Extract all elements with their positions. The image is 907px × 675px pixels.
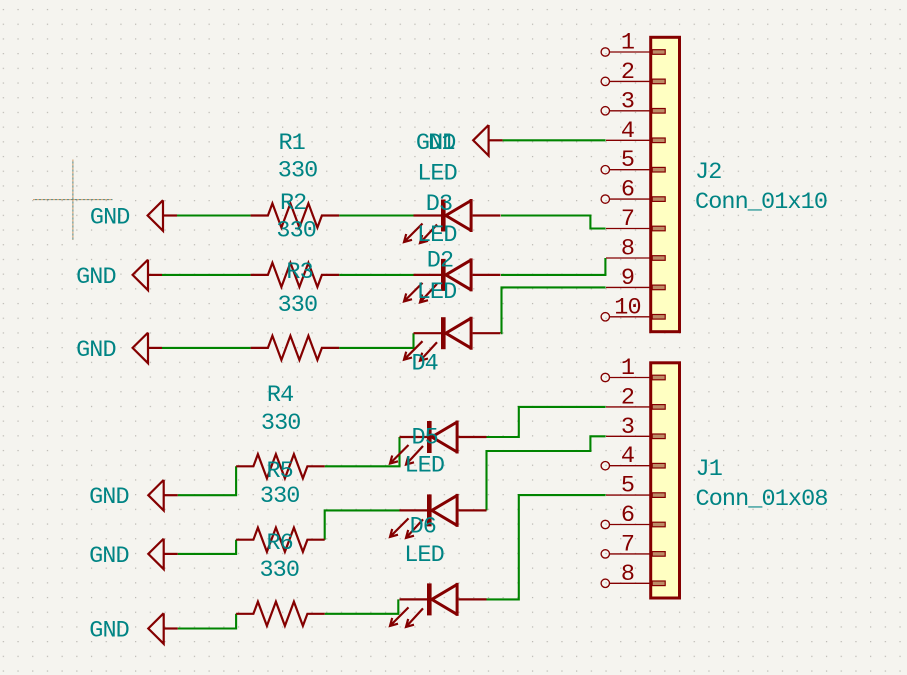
J1 pin 3 (606, 414, 665, 441)
wire R7 to D7 (325, 599, 399, 613)
ground GND_D (133, 333, 162, 364)
svg-text:2: 2 (621, 384, 634, 411)
J2 pin 6 (601, 177, 665, 204)
resistor R6 (236, 528, 325, 552)
svg-text:D1: D1 (428, 130, 454, 157)
svg-text:D5: D5 (411, 424, 437, 451)
svg-text:R5: R5 (266, 458, 292, 485)
J2 pin 5 (601, 147, 665, 174)
wire GND_B to R2 (177, 214, 251, 216)
wire GND_A to J2 pin 4 (503, 139, 606, 141)
wire GND_C to R3 (162, 274, 251, 276)
svg-text:D3: D3 (426, 191, 452, 218)
wire D3 to J2 pin 7 (501, 216, 606, 229)
wire GND3 to R5 (178, 466, 236, 495)
wire R5 to D5 (325, 437, 400, 466)
svg-text:J2: J2 (695, 159, 721, 186)
J1 pin 1 (601, 355, 665, 382)
J2 pin 2 (601, 59, 665, 86)
wire GND5 to R7 (178, 614, 236, 629)
wire R2 to D3 (339, 214, 413, 216)
svg-text:D2: D2 (427, 248, 453, 275)
LED D4 (404, 317, 501, 361)
wire GND4 to R6 (178, 540, 236, 554)
svg-text:330: 330 (278, 157, 318, 184)
ground GND5 (148, 613, 177, 644)
svg-text:J1: J1 (696, 456, 722, 483)
wire GND_D to R4 (162, 347, 251, 349)
svg-text:LED: LED (417, 222, 457, 249)
resistor R3 (251, 263, 340, 287)
svg-text:GND: GND (89, 484, 129, 511)
svg-text:LED: LED (417, 279, 457, 306)
svg-text:10: 10 (614, 294, 640, 321)
svg-text:4: 4 (621, 118, 634, 145)
svg-text:9: 9 (621, 265, 634, 292)
svg-text:5: 5 (621, 147, 634, 174)
svg-text:D6: D6 (410, 513, 436, 540)
svg-text:1: 1 (621, 355, 634, 382)
svg-text:LED: LED (404, 542, 444, 569)
svg-text:R4: R4 (267, 382, 293, 409)
svg-text:GND: GND (76, 264, 116, 291)
J2 pin 3 (601, 88, 665, 115)
svg-text:R6: R6 (266, 530, 292, 557)
J2 pin 1 (601, 30, 665, 57)
ground GND3 (148, 480, 177, 511)
resistor R2 (251, 203, 340, 227)
resistor R5 (236, 454, 325, 478)
wire R6 to D6 (325, 510, 400, 539)
svg-text:330: 330 (261, 410, 301, 437)
J1 pin 5 (606, 473, 665, 500)
svg-text:GND: GND (89, 543, 129, 570)
J2 pin 9 (606, 265, 665, 292)
J2 pin 4 (606, 118, 665, 145)
J2 pin 7 (606, 206, 665, 233)
svg-text:330: 330 (278, 292, 318, 319)
svg-text:330: 330 (259, 557, 299, 584)
svg-text:8: 8 (621, 561, 634, 588)
J1 pin 4 (601, 443, 665, 470)
svg-text:6: 6 (621, 502, 634, 529)
svg-text:Conn_01x08: Conn_01x08 (696, 486, 828, 513)
svg-text:330: 330 (260, 483, 300, 510)
svg-text:2: 2 (621, 59, 634, 86)
svg-text:330: 330 (276, 218, 316, 245)
svg-text:LED: LED (417, 161, 457, 188)
ground GND_A (power symbol, row A) (473, 125, 502, 156)
svg-text:6: 6 (621, 177, 634, 204)
wire D5 to J1 pin 2 (487, 407, 606, 437)
J1 pin 8 (601, 561, 665, 588)
wire D2 to J2 pin 8 (501, 258, 605, 275)
wire R3 to D2 (339, 274, 413, 276)
svg-text:R2: R2 (280, 190, 306, 217)
J2 pin 8 (606, 236, 665, 263)
svg-text:D4: D4 (411, 350, 437, 377)
svg-text:7: 7 (621, 531, 634, 558)
ground GND4 (148, 539, 177, 570)
connector J1 body (651, 363, 680, 598)
wire D4 to J2 pin 9 (501, 287, 606, 333)
ground GND_C (133, 260, 162, 291)
wire R4 to D4 (339, 333, 413, 348)
svg-text:R3: R3 (286, 259, 312, 286)
connector J2 body (651, 37, 680, 331)
resistor R4 (251, 336, 340, 360)
svg-text:7: 7 (621, 206, 634, 233)
LED D3 (404, 199, 501, 243)
svg-text:LED: LED (404, 453, 444, 480)
J2 pin 10 (601, 294, 665, 321)
svg-text:3: 3 (621, 88, 634, 115)
ground GND_B (148, 200, 177, 231)
svg-text:4: 4 (621, 443, 634, 470)
svg-text:1: 1 (621, 30, 634, 57)
svg-text:8: 8 (621, 236, 634, 263)
svg-text:GND: GND (76, 337, 116, 364)
J1 pin 2 (606, 384, 665, 411)
svg-text:GND: GND (89, 618, 129, 645)
J1 pin 6 (601, 502, 665, 529)
J1 pin 7 (601, 531, 665, 558)
wire D6 to J1 pin 3 (487, 436, 606, 510)
svg-text:GND: GND (90, 204, 130, 231)
svg-text:5: 5 (621, 473, 634, 500)
resistor R7 (236, 602, 325, 626)
cursor crosshair (33, 160, 113, 241)
LED D7 (390, 583, 487, 627)
LED D6 (390, 494, 487, 538)
wire D7 to J1 pin 5 (486, 495, 605, 599)
LED D2 (404, 258, 501, 302)
LED D5 (390, 421, 487, 465)
svg-text:3: 3 (621, 414, 634, 441)
svg-text:Conn_01x10: Conn_01x10 (695, 189, 827, 216)
svg-text:R1: R1 (278, 130, 304, 157)
